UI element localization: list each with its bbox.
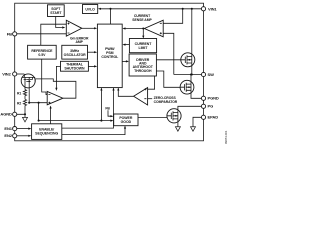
wire enable box up to LDO amp	[50, 106, 52, 123]
op-amp LDO error amp	[47, 91, 63, 104]
block CURRENT LIMIT	[129, 39, 156, 53]
arrowhead into PWM bottom left	[100, 88, 102, 91]
pin PGND	[201, 96, 205, 100]
node dot pass FET drain at amp input wire	[28, 102, 30, 104]
wire zero-cross minus stub	[148, 98, 153, 100]
resistor R2	[23, 99, 26, 107]
wire EPAD to ground	[193, 117, 201, 126]
wire enable sequencing to PWM bottom	[62, 88, 114, 128]
outer chip border	[15, 3, 204, 141]
node dot power good net to PWM	[100, 120, 102, 122]
wire VIN rail down to PMOS source	[191, 9, 193, 55]
wire Gm error amp output to PWM control	[82, 27, 95, 29]
wire CS amp output to PWM control	[125, 28, 144, 30]
wire NMOS source to PGND	[191, 93, 201, 99]
arrowhead oscillator into PWM	[94, 51, 97, 53]
ground symbol EPAD	[191, 127, 196, 132]
wire current sense amp plus input to SW node	[163, 33, 174, 74]
arrowhead enable into PWM bottom	[112, 88, 114, 91]
op-amp Gm error amp	[66, 20, 82, 36]
wire power good to PG FET gate	[138, 117, 167, 119]
svg-text:START: START	[50, 11, 62, 15]
svg-text:0.5V: 0.5V	[38, 53, 46, 57]
svg-text:FB: FB	[105, 107, 110, 111]
wire pass FET drain down	[28, 87, 30, 102]
arrowhead current limit into PWM right edge	[122, 44, 125, 46]
node dot power good net	[38, 120, 40, 122]
pin EPAD	[201, 115, 205, 119]
wire reference to Gm error amp top input	[41, 24, 67, 45]
wire VIN1 internal rail	[101, 8, 202, 10]
pin EN2	[13, 134, 17, 138]
node dot VIN rail to PWM	[109, 8, 111, 10]
arrowhead soft start into Gm amp	[62, 26, 65, 28]
block PWM PSM CONTROL	[97, 24, 122, 88]
wire EN2 into enable box	[17, 135, 29, 137]
wire VIN2 to pass FET	[17, 73, 24, 75]
svg-text:AGND: AGND	[0, 112, 12, 117]
arrowhead EN2	[28, 135, 31, 137]
arrowhead thermal into LDO amp top	[55, 88, 57, 91]
transistor VIN2 pass FET	[21, 74, 35, 88]
block SOFT START	[48, 5, 65, 17]
svg-text:EN2: EN2	[4, 133, 12, 138]
arrowhead CS output into PWM right edge	[122, 27, 125, 29]
wire power good input net	[39, 120, 111, 122]
svg-text:PG: PG	[208, 104, 214, 109]
resistor R1	[23, 90, 26, 97]
wire branch down to power good net	[38, 103, 40, 121]
wire current limit to PWM control	[125, 44, 129, 46]
arrowhead Gm output into PWM box	[94, 27, 97, 29]
arrowhead thermal shutdown into PWM	[94, 65, 97, 67]
wire reference down to LDO amp upper input	[42, 59, 48, 95]
wire driver to NMOS gate	[156, 71, 180, 87]
svg-text:R2: R2	[17, 101, 21, 105]
svg-text:THROUGH: THROUGH	[134, 69, 152, 73]
svg-text:CONTROL: CONTROL	[101, 55, 119, 59]
wire to LDO amp lower input	[29, 102, 47, 104]
wire up into PWM bottom	[100, 88, 102, 120]
wire enable sequencing to power good bottom	[62, 126, 125, 134]
wire AGND junction to ground	[24, 114, 26, 117]
wire zero-cross comparator output to PWM bottom	[118, 88, 133, 96]
svg-text:SHUTDOWN: SHUTDOWN	[64, 66, 85, 70]
wire driver to PMOS gate	[156, 59, 181, 61]
wire PWM control to driver	[122, 60, 126, 62]
wire FB to Gm error amp inverting input	[17, 33, 66, 35]
wire current sense amp minus input to VIN rail	[163, 9, 183, 23]
node dot SW CS-sense junction	[190, 73, 192, 75]
svg-text:EN1: EN1	[4, 126, 12, 131]
arrowhead into power good left	[110, 120, 113, 122]
pin SW	[201, 72, 205, 76]
wire thermal shutdown to LDO amp	[56, 66, 60, 88]
wire between R1 and R2	[24, 97, 26, 100]
ground symbol AGND	[23, 117, 28, 122]
svg-text:VIN2: VIN2	[2, 71, 11, 76]
svg-text:GOOD: GOOD	[121, 120, 132, 124]
transistor PG open-drain FET	[167, 109, 181, 123]
svg-text:FB: FB	[7, 31, 12, 36]
svg-text:LIMIT: LIMIT	[139, 46, 149, 50]
svg-text:SW: SW	[208, 72, 215, 77]
arrowhead into UVLO	[98, 8, 101, 10]
op-amp current sense amp	[144, 20, 163, 37]
node dot AGND junction	[24, 113, 26, 115]
svg-text:VIN1: VIN1	[208, 6, 217, 11]
node dot VIN rail to CS amp	[182, 8, 184, 10]
wire PG FET drain to PG pin	[178, 106, 202, 109]
wire soft start to Gm error amp	[56, 17, 63, 28]
wire zero-cross plus input to driver	[148, 76, 155, 89]
svg-text:UVLO: UVLO	[85, 7, 95, 11]
wire oscillator to PWM control	[88, 51, 95, 53]
arrowhead into power good bottom	[124, 126, 126, 129]
block THERMAL SHUTDOWN	[61, 61, 89, 71]
arrowhead enable into LDO amp bottom	[50, 106, 52, 109]
svg-text:PGND: PGND	[208, 96, 219, 101]
wire EN1 into enable box	[17, 128, 29, 130]
svg-text:OSCILLATOR: OSCILLATOR	[64, 53, 86, 57]
node dot amp input to power good branch	[38, 102, 40, 104]
block 3MHz OSCILLATOR	[62, 45, 88, 59]
pin AGND	[13, 112, 17, 116]
wire PG FET source to ground	[177, 123, 179, 127]
svg-text:09973-001: 09973-001	[224, 130, 228, 144]
arrowhead ZC output into PWM bottom	[117, 88, 119, 91]
comparator zero-cross	[134, 88, 148, 105]
arrowhead EN1	[28, 128, 31, 130]
pin VIN2	[13, 72, 17, 76]
ground symbol PG FET	[175, 127, 180, 132]
pin VIN1	[201, 7, 205, 11]
arrowhead FB stub into power good	[110, 115, 113, 117]
block UVLO	[83, 5, 98, 14]
wire PMOS drain to SW junction	[191, 65, 193, 74]
wire SW down to NMOS drain	[190, 75, 192, 82]
node dot SW junction	[191, 73, 193, 75]
pin PG	[201, 104, 205, 108]
block DRIVER AND ANTISHOOT THROUGH	[129, 54, 156, 76]
wire R2 to AGND	[17, 107, 25, 114]
block REFERENCE 0.5V	[28, 45, 57, 59]
svg-text:SENSE AMP: SENSE AMP	[132, 18, 152, 22]
node dot VIN rail to PMOS source	[191, 8, 193, 10]
svg-text:EPAD: EPAD	[208, 115, 219, 120]
svg-text:R1: R1	[17, 92, 21, 96]
transistor NMOS low side	[180, 80, 194, 94]
node dot CS output to current limit	[142, 27, 144, 29]
wire LDO amp output loop to pass FET gate	[35, 79, 76, 98]
pin FB	[13, 32, 17, 36]
arrowhead PWM into driver	[126, 60, 129, 62]
arrowhead into current limit top	[142, 36, 144, 39]
wire VIN rail down to PWM top	[110, 9, 112, 24]
block POWER GOOD	[114, 114, 138, 126]
wire SW node to SW pin	[174, 74, 202, 76]
wire divider chain top from pass FET	[24, 87, 26, 90]
svg-text:SEQUENCING: SEQUENCING	[35, 132, 58, 136]
wire thermal shutdown to PWM control	[88, 65, 94, 67]
transistor PMOS high side	[181, 53, 195, 67]
svg-text:AMP: AMP	[76, 40, 84, 44]
block ENABLE SEQUENCING	[32, 124, 62, 140]
pin EN1	[13, 127, 17, 131]
svg-text:COMPARATOR: COMPARATOR	[154, 100, 178, 104]
wire CS output down to current limit	[142, 29, 144, 36]
wire FB stub into power good	[108, 110, 111, 116]
